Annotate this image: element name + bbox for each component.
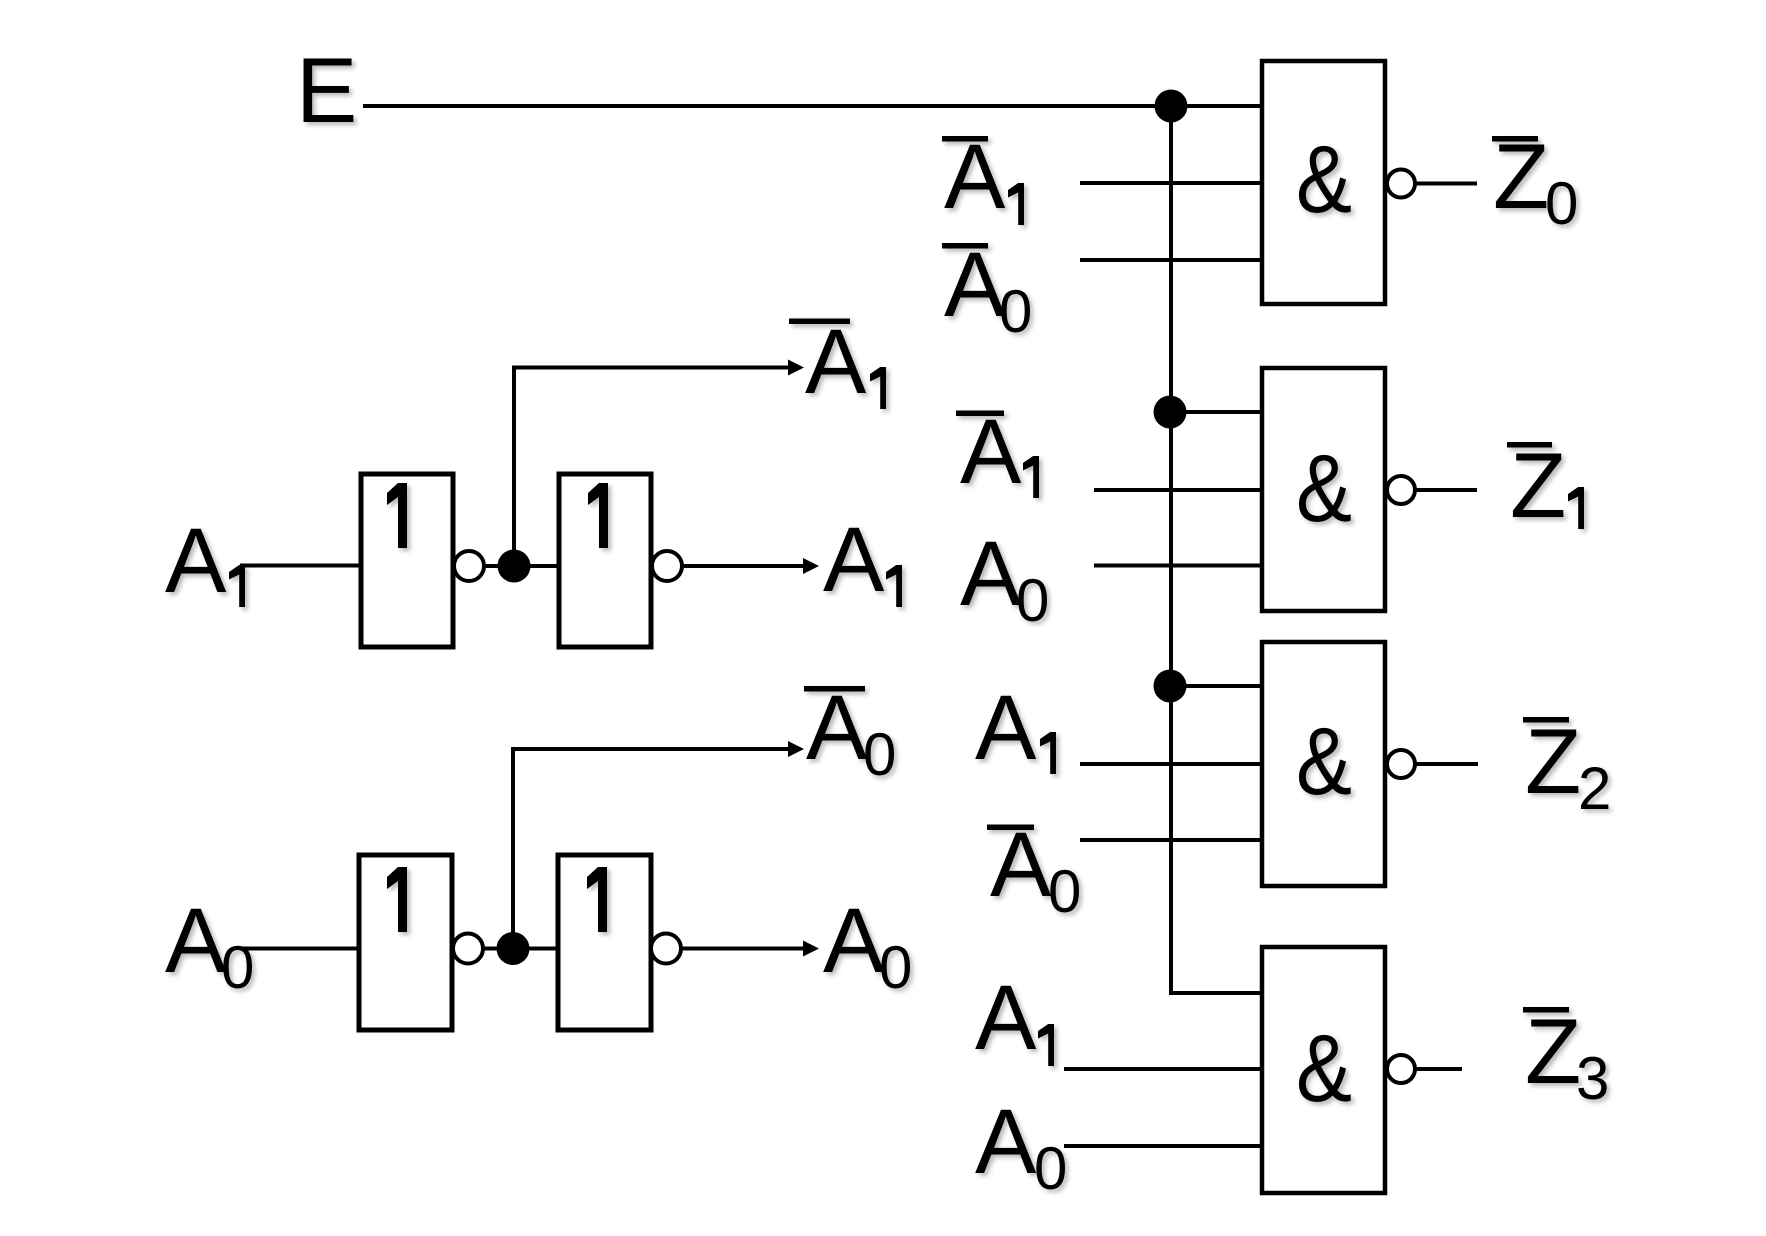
overline of label Z2bar bbox=[1523, 717, 1569, 723]
arrowhead A0bar bbox=[788, 741, 804, 757]
subscript 1 of gate U1 input A1bar bbox=[1008, 183, 1024, 225]
svg-text:0: 0 bbox=[1545, 170, 1578, 237]
overline of label Z3bar bbox=[1523, 1007, 1569, 1013]
svg-text:&: & bbox=[1296, 126, 1352, 233]
wire gate U1 input A1bar bbox=[1080, 181, 1263, 185]
wire gate U2 input A1bar bbox=[1094, 488, 1263, 492]
svg-text:Z: Z bbox=[1525, 1001, 1581, 1103]
junction dot E at gate U3 bbox=[1154, 670, 1187, 703]
wire between inverter U5 and U6 bbox=[484, 564, 559, 568]
overline of A1bar at inverter chain bbox=[789, 319, 850, 325]
subscript 1 of A1 buffered output bbox=[886, 565, 902, 607]
arrowhead A1bar bbox=[788, 360, 804, 376]
subscript 1 of gate U3 input A1 bbox=[1040, 732, 1056, 774]
wire gate U3 input A1 bbox=[1080, 762, 1263, 766]
output bubble gate U1 bbox=[1387, 170, 1415, 198]
inverter U5 box bbox=[361, 474, 453, 647]
svg-text:0: 0 bbox=[879, 934, 912, 1001]
svg-text:&: & bbox=[1296, 435, 1352, 542]
wire A1 output to arrow bbox=[682, 564, 807, 568]
wire gate U2 input A0 bbox=[1094, 564, 1263, 568]
wire between inverter U7 and U8 bbox=[483, 947, 558, 951]
subscript 1 of gate U2 input A1bar bbox=[1023, 456, 1039, 498]
inverter U5 symbol 1 bbox=[387, 483, 407, 548]
wire output Z1bar bbox=[1415, 488, 1477, 492]
inverter U8 symbol 1 bbox=[587, 867, 607, 932]
wire gate U4 input A1 bbox=[1064, 1067, 1263, 1071]
wire output Z0bar bbox=[1415, 182, 1477, 186]
svg-text:A: A bbox=[823, 890, 885, 992]
output bubble gate U4 bbox=[1387, 1055, 1415, 1083]
svg-text:A: A bbox=[165, 510, 227, 612]
wire gate U3 input A0bar bbox=[1080, 838, 1263, 842]
output bubble inverter U8 bbox=[651, 934, 681, 964]
inverter U6 box bbox=[559, 474, 651, 647]
inverter U8 box bbox=[558, 855, 651, 1030]
wire net E vertical distribution with elbow into gate U4 bbox=[1171, 106, 1263, 993]
overline of label Z1bar bbox=[1507, 442, 1552, 448]
wire E stub into gate U2 bbox=[1170, 410, 1263, 414]
inverter U7 box bbox=[359, 855, 452, 1030]
subscript 1 of label Z1bar bbox=[1568, 487, 1584, 529]
junction dot E at gate U2 bbox=[1154, 396, 1187, 429]
wire output Z2bar bbox=[1416, 762, 1478, 766]
wire input A1 to inverter U5 bbox=[240, 564, 361, 568]
overline of label Z0bar bbox=[1492, 136, 1538, 142]
svg-text:0: 0 bbox=[1048, 858, 1081, 925]
NAND gate U1 body bbox=[1262, 61, 1385, 304]
overline of gate U1 input A1bar bbox=[942, 136, 988, 142]
overline of gate U1 input A0bar bbox=[942, 243, 988, 249]
junction dot node A0bar bbox=[497, 932, 530, 965]
output bubble gate U3 bbox=[1387, 750, 1415, 778]
arrowhead A1 output bbox=[803, 558, 819, 574]
wire A1bar elbow up from node bbox=[514, 368, 790, 567]
subscript 1 of gate U4 input A1 bbox=[1038, 1024, 1054, 1066]
output bubble gate U2 bbox=[1387, 476, 1415, 504]
wire input A0 to inverter U7 bbox=[240, 947, 359, 951]
svg-text:Z: Z bbox=[1510, 435, 1566, 537]
svg-text:A: A bbox=[960, 523, 1022, 625]
subscript 1 of input A1 bbox=[229, 565, 245, 607]
NAND gate U2 body bbox=[1262, 368, 1385, 611]
svg-text:&: & bbox=[1296, 708, 1352, 815]
output bubble inverter U6 bbox=[652, 551, 682, 581]
svg-text:A: A bbox=[944, 234, 1006, 336]
svg-text:0: 0 bbox=[1016, 567, 1049, 634]
junction dot E at gate U1 bbox=[1155, 90, 1188, 123]
svg-text:Z: Z bbox=[1493, 126, 1549, 228]
svg-text:0: 0 bbox=[221, 934, 254, 1001]
svg-text:A: A bbox=[165, 890, 227, 992]
svg-text:A: A bbox=[823, 509, 885, 611]
svg-text:0: 0 bbox=[1034, 1135, 1067, 1202]
wire net E horizontal bbox=[363, 104, 1263, 108]
svg-text:0: 0 bbox=[999, 278, 1032, 345]
svg-text:A: A bbox=[990, 814, 1052, 916]
svg-text:2: 2 bbox=[1578, 755, 1611, 822]
svg-text:Z: Z bbox=[1525, 711, 1581, 813]
wire A0bar elbow up from node bbox=[513, 749, 788, 949]
junction dot node A1bar bbox=[498, 550, 531, 583]
wire output Z3bar bbox=[1415, 1067, 1462, 1071]
overline of gate U3 input A0bar bbox=[987, 825, 1034, 831]
svg-text:3: 3 bbox=[1576, 1045, 1609, 1112]
svg-text:A: A bbox=[975, 1091, 1037, 1193]
svg-text:E: E bbox=[296, 40, 357, 142]
wire gate U4 input A0 bbox=[1064, 1144, 1263, 1148]
svg-text:&: & bbox=[1296, 1015, 1352, 1122]
NAND gate U3 body bbox=[1262, 642, 1385, 886]
output bubble inverter U7 bbox=[453, 934, 483, 964]
svg-text:A: A bbox=[975, 677, 1037, 779]
arrowhead A0 output bbox=[803, 941, 819, 957]
wire E stub into gate U3 bbox=[1170, 684, 1263, 688]
svg-text:A: A bbox=[806, 677, 868, 779]
overline of A0bar at inverter chain bbox=[804, 686, 865, 692]
svg-text:A: A bbox=[805, 311, 867, 413]
svg-text:0: 0 bbox=[863, 721, 896, 788]
NAND gate U4 body bbox=[1262, 947, 1385, 1193]
overline of gate U2 input A1bar bbox=[956, 411, 1004, 417]
svg-text:A: A bbox=[975, 967, 1037, 1069]
inverter U7 symbol 1 bbox=[387, 867, 407, 932]
wire gate U1 input A0bar bbox=[1080, 258, 1263, 262]
wire A0 output to arrow bbox=[681, 947, 807, 951]
output bubble inverter U5 bbox=[454, 551, 484, 581]
inverter U6 symbol 1 bbox=[588, 483, 608, 548]
svg-text:A: A bbox=[960, 401, 1022, 503]
subscript 1 of A1bar at inverter chain bbox=[870, 367, 886, 409]
svg-text:A: A bbox=[944, 126, 1006, 228]
